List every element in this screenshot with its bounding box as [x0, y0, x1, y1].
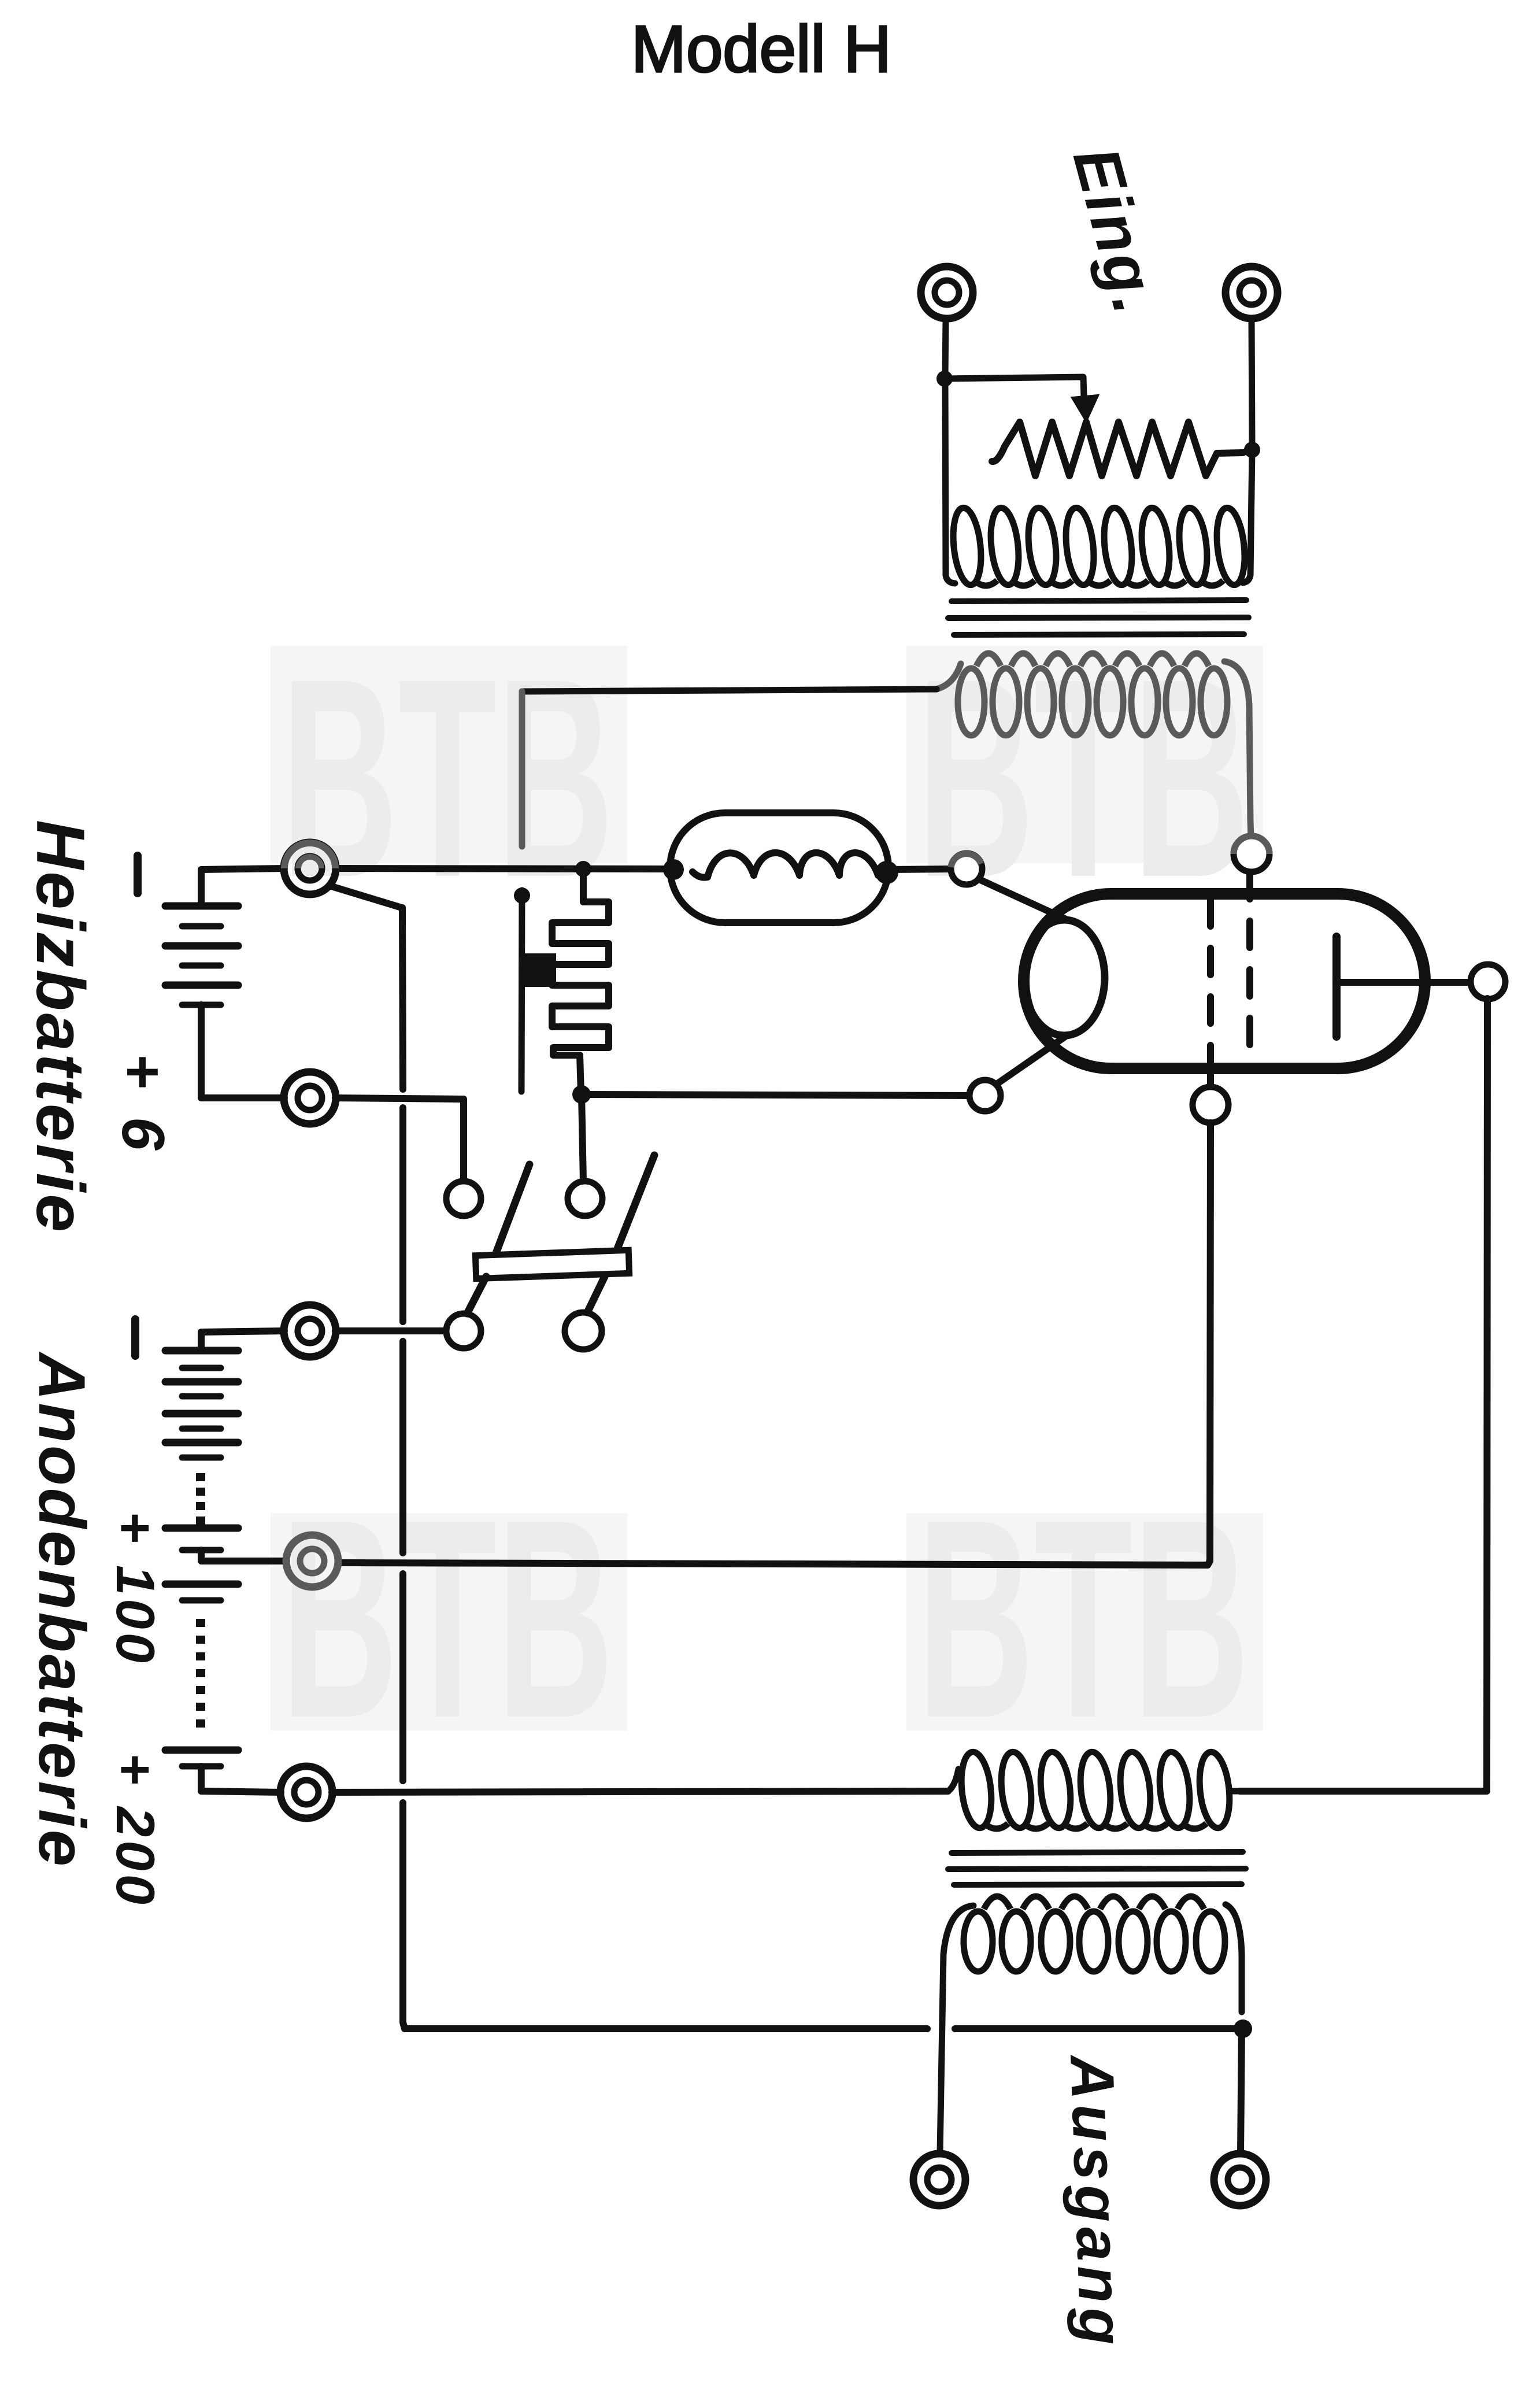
wire: grid bottom terminal down to +100 — [340, 1123, 1210, 1565]
terminal +200 — [280, 1766, 332, 1818]
svg-text:Heizbatterie: Heizbatterie — [22, 820, 98, 1234]
wire: secondary left exit down — [940, 1906, 973, 2153]
barretter filament (bumpy wave) — [693, 853, 878, 878]
rheostat wiper contact (filled square) — [523, 953, 556, 987]
tube cathode terminal bottom — [969, 1080, 1001, 1111]
watermark box — [271, 646, 627, 863]
tube anode terminal — [1471, 964, 1505, 999]
resistor R1 (volume potentiometer) — [992, 422, 1243, 476]
wire: Heiz- terminal to glow resistor — [335, 868, 671, 869]
svg-text:BTB: BTB — [917, 1460, 1250, 1777]
watermark box — [906, 1513, 1263, 1730]
svg-text:Modell H: Modell H — [631, 13, 891, 86]
tube grid stub below envelope — [1207, 1067, 1214, 1088]
wire: diagonal to cathode top — [979, 879, 1066, 919]
terminal Heiz +6 — [284, 1072, 336, 1124]
terminal +100 (gray under watermark) — [286, 1535, 338, 1587]
switch tie bar — [475, 1250, 629, 1278]
junction blob barretter right — [875, 861, 898, 884]
barretter lamp outline — [670, 813, 889, 923]
wiper wire junction blob — [514, 887, 530, 904]
wire: diagonal to cathode bottom — [998, 1036, 1066, 1083]
terminal Heiz minus — [284, 842, 336, 894]
watermark box — [271, 1513, 627, 1730]
junction dot left input — [936, 371, 953, 387]
output terminal left — [913, 2154, 965, 2206]
wire: secondary right exit down — [1226, 1904, 1242, 2012]
output transformer secondary coil — [964, 1911, 993, 1972]
wire: long left vertical bus — [402, 908, 403, 1089]
terminal Anoden minus — [284, 1305, 336, 1357]
svg-text:+ 6: + 6 — [109, 1053, 176, 1156]
input terminal left — [921, 267, 973, 319]
wire: rheostat junction down to switch — [582, 1094, 583, 1181]
switch blade right — [615, 1155, 654, 1255]
wire: +6 to switch pole A — [335, 1098, 464, 1181]
junction dot rheostat bottom — [572, 1085, 591, 1104]
label minus (Heizbatterie) — [134, 856, 142, 893]
wire: B2 bottom to +200 terminal — [201, 1766, 281, 1792]
tube anode plate — [1332, 937, 1341, 1037]
wire: primary right exit — [1230, 1788, 1240, 1795]
gray arc on cathode terminal (watermark) — [951, 854, 981, 867]
tube grid terminal top — [1234, 836, 1269, 872]
wire: +100 tap — [201, 1550, 287, 1561]
svg-text:+ 200: + 200 — [105, 1753, 166, 1908]
wire: vertical to rheostat wiper (gray under watermark) — [519, 691, 525, 846]
arrowhead of wiper — [1072, 395, 1098, 421]
tube cathode terminal top — [951, 853, 982, 885]
wire: +200 to output transformer primary — [332, 1791, 948, 1792]
switch contact bottom-left — [446, 1314, 481, 1348]
battery B2 Anodenbatterie section 1 plates — [165, 1347, 238, 1355]
wiper wire lower segment — [521, 890, 522, 1092]
tube V1 envelope — [1024, 894, 1425, 1068]
input transformer primary coil — [950, 506, 984, 586]
switch blade left lower stub — [467, 1277, 486, 1314]
wire: junction down to output terminal — [1241, 2029, 1242, 2153]
svg-text:Ausgang: Ausgang — [1057, 2052, 1136, 2351]
resistor R2 (filament rheostat, meander) — [552, 869, 609, 1093]
tube grid wire 2 (dashed) — [1246, 872, 1253, 1067]
wire: secondary left exit — [936, 664, 961, 689]
junction dot output — [1234, 2019, 1252, 2038]
wire: secondary to grid (horizontal) — [522, 689, 936, 691]
svg-text:+ 100: + 100 — [105, 1511, 166, 1666]
wire: B2 top to Anoden minus terminal — [201, 1331, 284, 1351]
input transformer secondary coil (under watermark) — [958, 668, 984, 735]
wire: left input stem — [945, 319, 946, 376]
input transformer core — [952, 600, 1246, 601]
wire: rheostat junction to cathode bottom — [582, 1094, 969, 1096]
wire: left stem down to primary — [945, 379, 955, 583]
tube grid terminal bottom — [1193, 1087, 1228, 1123]
junction dot rheostat top — [575, 861, 591, 877]
B2 bottom plates — [165, 1747, 238, 1754]
wire: B1 top to terminal — [201, 868, 284, 906]
junction dot glow lamp left — [663, 859, 684, 880]
switch blade left — [495, 1164, 530, 1255]
wire: B1 bottom to +6 terminal — [201, 1005, 284, 1098]
switch blade right lower stub — [587, 1277, 605, 1312]
input terminal right — [1226, 267, 1278, 319]
wire: Anoden minus to switch pole B — [335, 1327, 446, 1334]
B2 dotted cells 1 — [196, 1473, 205, 1481]
wire: anode lead — [1337, 979, 1471, 986]
wire: secondary right exit down — [1224, 661, 1250, 821]
tube cathode (filament circle) — [1024, 920, 1105, 1035]
junction dot right input / pot end — [1244, 442, 1260, 458]
wire: primary left entry curl — [948, 1769, 958, 1791]
svg-text:BTB: BTB — [282, 1460, 614, 1777]
wire: right input stem — [1252, 319, 1252, 446]
B2 plates at +100 tap — [165, 1525, 238, 1532]
output terminal right — [1214, 2154, 1266, 2206]
switch contact top-right — [568, 1181, 602, 1216]
output transformer core — [952, 1852, 1243, 1853]
wire: anode terminal down to output transformer — [1240, 998, 1487, 1791]
wire: right stem down to primary — [1243, 450, 1252, 583]
switch contact bottom-right — [565, 1312, 602, 1349]
wire: bus lower segment and bottom run — [403, 1803, 927, 2029]
svg-text:Anodenbatterie: Anodenbatterie — [25, 1351, 98, 1869]
gray arc on grid terminal (watermark) — [1234, 836, 1269, 854]
wire: wiper branch — [945, 377, 1084, 398]
watermark box — [906, 646, 1263, 863]
wire: diagonal from Heiz minus to long vertical — [330, 886, 402, 908]
tube grid wire 1 (dashed) — [1207, 900, 1214, 1067]
switch contact top-left — [446, 1181, 481, 1216]
battery B1 Heizbatterie plates — [165, 903, 238, 910]
B2 dotted cells 2 — [196, 1619, 205, 1627]
label minus (Anodenbatterie) — [131, 1319, 139, 1356]
wire: bottom run continued to output junction — [955, 2025, 1242, 2032]
gray overlay on Heiz minus terminal (watermark) — [284, 843, 335, 868]
output transformer primary coil — [958, 1751, 995, 1830]
wire: barretter to cathode terminal — [890, 869, 952, 870]
wire: pot right end to stem — [1243, 450, 1250, 453]
